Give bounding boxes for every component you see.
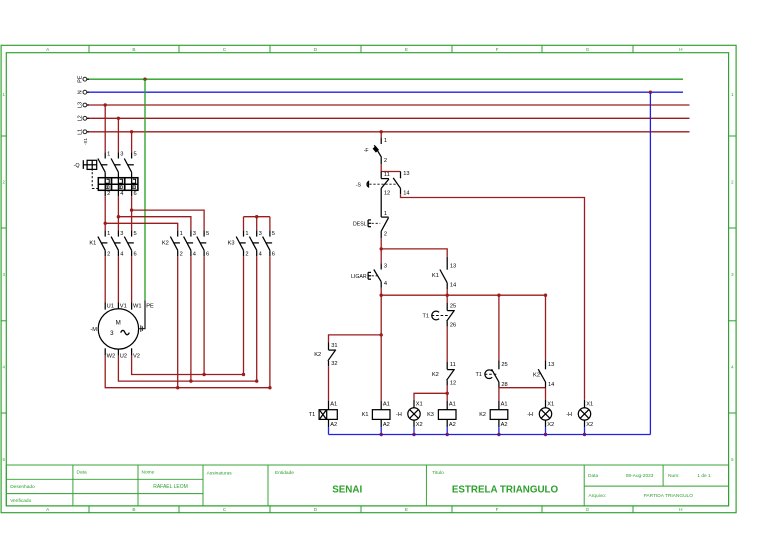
junction K2 31-32 branch	[380, 333, 383, 336]
wire L1 tap to fuse -F	[380, 132, 382, 138]
wire -S 14 to lamp H3	[401, 194, 585, 400]
svg-text:A2: A2	[383, 422, 390, 428]
junction K3 A2 / N bus	[446, 433, 449, 436]
svg-text:K1: K1	[432, 273, 439, 279]
svg-text:2: 2	[384, 158, 387, 164]
svg-text:2: 2	[384, 232, 387, 238]
svg-text:Data: Data	[588, 473, 598, 479]
svg-text:3: 3	[120, 231, 123, 237]
svg-text:4: 4	[120, 191, 123, 197]
svg-text:13: 13	[450, 263, 456, 269]
svg-text:3: 3	[120, 152, 123, 158]
auxiliary contact K1 13-14 (NO)	[432, 257, 456, 290]
wire H2 X2 to N bus	[545, 427, 547, 434]
svg-text:RAFAEL LEOM: RAFAEL LEOM	[153, 484, 188, 490]
svg-text:6: 6	[134, 251, 137, 257]
wire K2 coil to K2 14 link	[499, 387, 546, 389]
wire K2 12 to K3 coil	[446, 386, 448, 401]
svg-text:2: 2	[245, 251, 248, 257]
star-point bridge over K3	[244, 216, 270, 218]
svg-text:12: 12	[384, 191, 390, 197]
svg-text:2: 2	[107, 191, 110, 197]
auxiliary contact K2 11-12 (NC)	[432, 362, 456, 387]
wire K2 A2 to N bus	[498, 427, 500, 434]
wire branch to K2 31	[329, 335, 382, 343]
svg-text:T1: T1	[422, 313, 428, 319]
svg-text:1: 1	[107, 152, 110, 158]
wire Q pole2 out to K1 pole1	[104, 196, 106, 230]
svg-text:6: 6	[272, 251, 275, 257]
svg-text:5: 5	[272, 231, 275, 237]
svg-text:G: G	[586, 507, 590, 512]
wire branch to K1 13	[381, 249, 447, 257]
svg-text:08-Aug-2023: 08-Aug-2023	[626, 473, 654, 479]
junction K2 A2 / N bus	[497, 433, 500, 436]
svg-text:2: 2	[2, 180, 5, 185]
junction K1 A2 / N bus	[380, 433, 383, 436]
contactor K2 power contacts	[162, 230, 209, 257]
svg-text:A1: A1	[330, 401, 337, 407]
motor circuit breaker -Q (3-pole with thermal overload)	[74, 152, 138, 197]
svg-text:A2: A2	[330, 422, 337, 428]
wire LIGAR to node	[380, 288, 382, 295]
svg-text:5: 5	[134, 231, 137, 237]
contactor coil K3	[427, 401, 456, 428]
wire branch to K2 pole 3	[118, 217, 190, 231]
wire DESL to LIGAR	[380, 238, 382, 263]
junction below Q pole6	[130, 208, 133, 211]
svg-text:2: 2	[180, 251, 183, 257]
svg-text:D: D	[314, 507, 318, 512]
svg-text:SENAI: SENAI	[332, 484, 362, 495]
svg-text:31: 31	[331, 343, 337, 349]
wire down to K1 coil	[380, 335, 382, 401]
wire branch to K2 pole 5	[132, 210, 205, 230]
wire T1 A2 to N bus	[328, 427, 330, 434]
svg-text:F: F	[496, 47, 499, 52]
junction node/K1aux	[446, 294, 449, 297]
svg-text:T1: T1	[309, 412, 315, 418]
svg-text:3: 3	[2, 272, 5, 277]
wire K2 pole2 down	[177, 256, 179, 388]
svg-text:U2: U2	[120, 354, 127, 360]
wire N bottom bus	[329, 434, 651, 436]
svg-text:X1: X1	[547, 401, 554, 407]
svg-text:5: 5	[2, 457, 5, 462]
svg-text:3: 3	[193, 231, 196, 237]
svg-text:X1: X1	[586, 401, 593, 407]
auxiliary contact K2 31-32 (NC)	[314, 343, 337, 368]
wire K1 pole2 to motor U1	[104, 256, 106, 302]
contactor K1 power contacts	[89, 230, 136, 257]
svg-text:A2: A2	[449, 422, 456, 428]
indicator lamp -H (K2 on)	[527, 400, 554, 428]
wire K1 14 to node	[446, 289, 448, 295]
svg-text:11: 11	[384, 172, 390, 178]
svg-text:4: 4	[384, 281, 387, 287]
svg-text:2: 2	[107, 251, 110, 257]
junction on K3 bridge	[255, 215, 258, 218]
wire T1 26 to K2 11	[446, 327, 448, 362]
junction K3 pole6 / W2 loop	[268, 386, 271, 389]
junction on L1 bus (control tap)	[380, 130, 383, 133]
svg-text:W1: W1	[133, 304, 142, 310]
svg-text:B: B	[132, 47, 135, 52]
junction K2 pole4 / U2 loop	[189, 379, 192, 382]
indicator lamp -H (power on)	[566, 400, 593, 428]
wire branch to lamp H1	[414, 393, 447, 400]
svg-text:-H: -H	[527, 412, 533, 418]
timed contact T1 25-26 (NC)	[422, 295, 456, 329]
svg-text:32: 32	[331, 361, 337, 367]
svg-text:Nome: Nome	[142, 469, 155, 475]
svg-text:T1: T1	[475, 372, 481, 378]
svg-text:14: 14	[450, 283, 456, 289]
junction below Q pole4	[117, 215, 120, 218]
svg-text:A: A	[46, 507, 50, 512]
wire PE bus down to motor	[144, 79, 146, 300]
junction node/LIGAR	[380, 294, 383, 297]
svg-text:H: H	[679, 47, 682, 52]
svg-text:6: 6	[134, 191, 137, 197]
svg-text:5: 5	[134, 152, 137, 158]
junction node/T1-25-28	[497, 294, 500, 297]
svg-text:Arquivo:: Arquivo:	[589, 493, 607, 499]
svg-text:1: 1	[245, 231, 248, 237]
wire L1 to Q pole 5	[131, 132, 133, 153]
wire -F to -S branch 13	[381, 171, 400, 173]
svg-text:1: 1	[2, 92, 5, 97]
svg-text:4: 4	[120, 251, 123, 257]
svg-text:4: 4	[731, 365, 734, 370]
svg-text:K2: K2	[533, 372, 540, 378]
svg-text:4: 4	[2, 365, 5, 370]
svg-text:G: G	[586, 47, 590, 52]
svg-text:X2: X2	[547, 422, 554, 428]
svg-text:C: C	[223, 507, 227, 512]
svg-text:4: 4	[259, 251, 262, 257]
svg-text:13: 13	[403, 171, 409, 177]
control node bus	[381, 294, 545, 296]
svg-text:1: 1	[384, 138, 387, 144]
svg-text:26: 26	[450, 323, 456, 329]
svg-text:K2: K2	[479, 412, 486, 418]
junction K2 pole2 / W2 loop	[176, 386, 179, 389]
junction below DESL	[380, 247, 383, 250]
pushbutton LIGAR (NO)	[351, 263, 387, 288]
svg-text:K2: K2	[314, 352, 321, 358]
svg-text:E: E	[405, 507, 408, 512]
svg-text:Titulo: Titulo	[432, 470, 444, 476]
motor -M (3-phase)	[90, 302, 154, 359]
svg-text:25: 25	[501, 362, 507, 368]
svg-text:3: 3	[259, 231, 262, 237]
svg-text:K2: K2	[432, 372, 439, 378]
junction on L3 bus	[104, 103, 107, 106]
svg-text:1: 1	[107, 231, 110, 237]
svg-text:A2: A2	[501, 422, 508, 428]
svg-text:14: 14	[403, 191, 409, 197]
svg-text:C: C	[223, 47, 227, 52]
wire K3 pole6 down	[269, 256, 271, 388]
svg-text:K3: K3	[427, 412, 434, 418]
wire N riser	[649, 92, 651, 434]
svg-text:1 de 1: 1 de 1	[697, 473, 711, 479]
svg-text:-H: -H	[396, 412, 402, 418]
pushbutton DESL (NC)	[353, 211, 389, 238]
junction H3 X2 / N bus	[583, 433, 586, 436]
svg-text:-M: -M	[90, 327, 97, 333]
indicator lamp -H (K3 on)	[396, 400, 423, 428]
svg-text:5: 5	[206, 231, 209, 237]
timer coil T1	[309, 401, 338, 428]
svg-text:4: 4	[193, 251, 196, 257]
wire motor V2 to delta loop	[132, 356, 244, 375]
svg-text:ESTRELA TRIANGULO: ESTRELA TRIANGULO	[452, 484, 559, 495]
svg-text:-Q: -Q	[74, 163, 80, 169]
svg-text:3: 3	[731, 272, 734, 277]
svg-text:3: 3	[384, 263, 387, 269]
svg-text:K1: K1	[362, 412, 369, 418]
svg-text:25: 25	[450, 303, 456, 309]
motor PE connection	[139, 300, 145, 332]
svg-text:X1: X1	[416, 401, 423, 407]
junction K3 pole4 / U2 loop	[255, 379, 258, 382]
wire H3 X2 to N bus	[584, 427, 586, 434]
svg-text:PE: PE	[146, 304, 154, 310]
node PE bus	[83, 77, 87, 81]
wire H1 X2 to N bus	[413, 427, 415, 434]
svg-text:V2: V2	[133, 354, 140, 360]
contactor K3 power contacts	[228, 230, 275, 257]
wire K1 pole6 to motor W1	[131, 256, 133, 302]
svg-text:1: 1	[384, 211, 387, 217]
svg-text:3: 3	[110, 330, 114, 337]
wire node down to K1 coil branch	[380, 295, 382, 335]
node L2 bus	[83, 116, 87, 120]
svg-text:H: H	[679, 507, 682, 512]
svg-text:A1: A1	[449, 401, 456, 407]
switch -S (double pole)	[356, 171, 410, 196]
svg-text:L3: L3	[77, 102, 83, 108]
svg-text:Num:: Num:	[668, 473, 679, 479]
svg-text:Assinaturas: Assinaturas	[207, 471, 233, 477]
wire K2 14 to lamp H2	[545, 388, 547, 400]
wire T1 28 to K2 coil	[498, 388, 500, 401]
svg-text:DESL: DESL	[353, 221, 367, 227]
wire K1 pole4 to motor V1	[117, 256, 119, 302]
svg-text:L2: L2	[77, 115, 83, 121]
svg-text:-S: -S	[356, 182, 362, 188]
svg-text:Entidade: Entidade	[275, 470, 294, 476]
auxiliary contact K2 13-14 (NO)	[533, 295, 554, 388]
svg-text:X2: X2	[586, 422, 593, 428]
wire K2 pole6 down	[203, 256, 205, 374]
wire -F to -S	[380, 164, 382, 171]
svg-text:A: A	[46, 47, 50, 52]
svg-text:X2: X2	[416, 422, 423, 428]
junction on L2 bus	[117, 117, 120, 120]
svg-text:5: 5	[731, 457, 734, 462]
svg-text:A1: A1	[383, 401, 390, 407]
fuse-disconnector -F	[364, 138, 387, 165]
svg-text:2: 2	[731, 180, 734, 185]
svg-text:N: N	[77, 90, 83, 94]
svg-text:U1: U1	[107, 304, 114, 310]
svg-text:B: B	[132, 507, 135, 512]
svg-text:-X1: -X1	[83, 138, 88, 145]
wire Q pole4 out to K1 pole3	[117, 196, 119, 230]
junction K3 pole2 / V2 loop	[242, 373, 245, 376]
svg-text:K3: K3	[228, 240, 235, 246]
wire K1 A2 to N bus	[380, 427, 382, 434]
svg-text:M: M	[116, 320, 121, 327]
contactor coil K1	[362, 401, 390, 428]
svg-text:K2: K2	[162, 240, 169, 246]
svg-text:E: E	[405, 47, 408, 52]
junction on N bus	[649, 91, 652, 94]
contactor coil K2	[479, 401, 508, 428]
svg-text:D: D	[314, 47, 318, 52]
wire motor U2 to delta loop	[118, 356, 256, 381]
wire L2 to Q pole 3	[117, 118, 119, 152]
svg-text:Verificado: Verificado	[10, 498, 31, 504]
junction H2 X2 / N bus	[544, 433, 547, 436]
svg-text:1: 1	[180, 231, 183, 237]
wire motor W2 to delta loop	[105, 356, 270, 388]
junction lamp H1 branch	[446, 392, 449, 395]
svg-text:L1: L1	[77, 129, 83, 135]
timed contact T1 25-28 (NO)	[475, 295, 507, 388]
junction on L1 bus	[130, 130, 133, 133]
wire L3 to Q pole 1	[104, 105, 106, 152]
svg-text:-H: -H	[566, 412, 572, 418]
svg-text:LIGAR: LIGAR	[351, 274, 367, 280]
svg-text:W2: W2	[107, 354, 116, 360]
svg-text:A1: A1	[501, 401, 508, 407]
wire K3 pole4 down	[256, 256, 258, 381]
svg-text:PE: PE	[77, 75, 83, 83]
junction K2 pole6 / V2 loop	[202, 373, 205, 376]
node N bus	[83, 90, 87, 94]
wire K2 32 to timer coil T1	[328, 366, 330, 401]
node L1 bus	[83, 130, 87, 134]
svg-text:Desenhado: Desenhado	[10, 484, 35, 490]
junction below Q pole2	[104, 222, 107, 225]
wire K2 pole4 down	[190, 256, 192, 381]
svg-text:14: 14	[548, 382, 554, 388]
wire K3 pole2 down	[243, 256, 245, 374]
node L3 bus	[83, 103, 87, 107]
svg-text:F: F	[496, 507, 499, 512]
svg-text:-F: -F	[364, 148, 369, 154]
svg-text:11: 11	[450, 362, 456, 368]
svg-text:K1: K1	[89, 240, 96, 246]
wire K3 A2 to N bus	[446, 427, 448, 434]
svg-text:12: 12	[450, 381, 456, 387]
svg-text:13: 13	[548, 362, 554, 368]
wire -S 12 to DESL	[380, 189, 382, 217]
junction H1 X2 / N bus	[412, 433, 415, 436]
junction node/K2-13-14	[544, 294, 547, 297]
svg-text:1: 1	[731, 92, 734, 97]
svg-text:Data: Data	[77, 469, 87, 475]
svg-text:PARTIDA TRIANGULO: PARTIDA TRIANGULO	[644, 493, 694, 499]
wire branch to K2 pole 1	[105, 223, 178, 230]
junction on PE bus	[143, 78, 146, 81]
svg-text:6: 6	[206, 251, 209, 257]
wire Q pole6 out to K1 pole5	[131, 196, 133, 230]
